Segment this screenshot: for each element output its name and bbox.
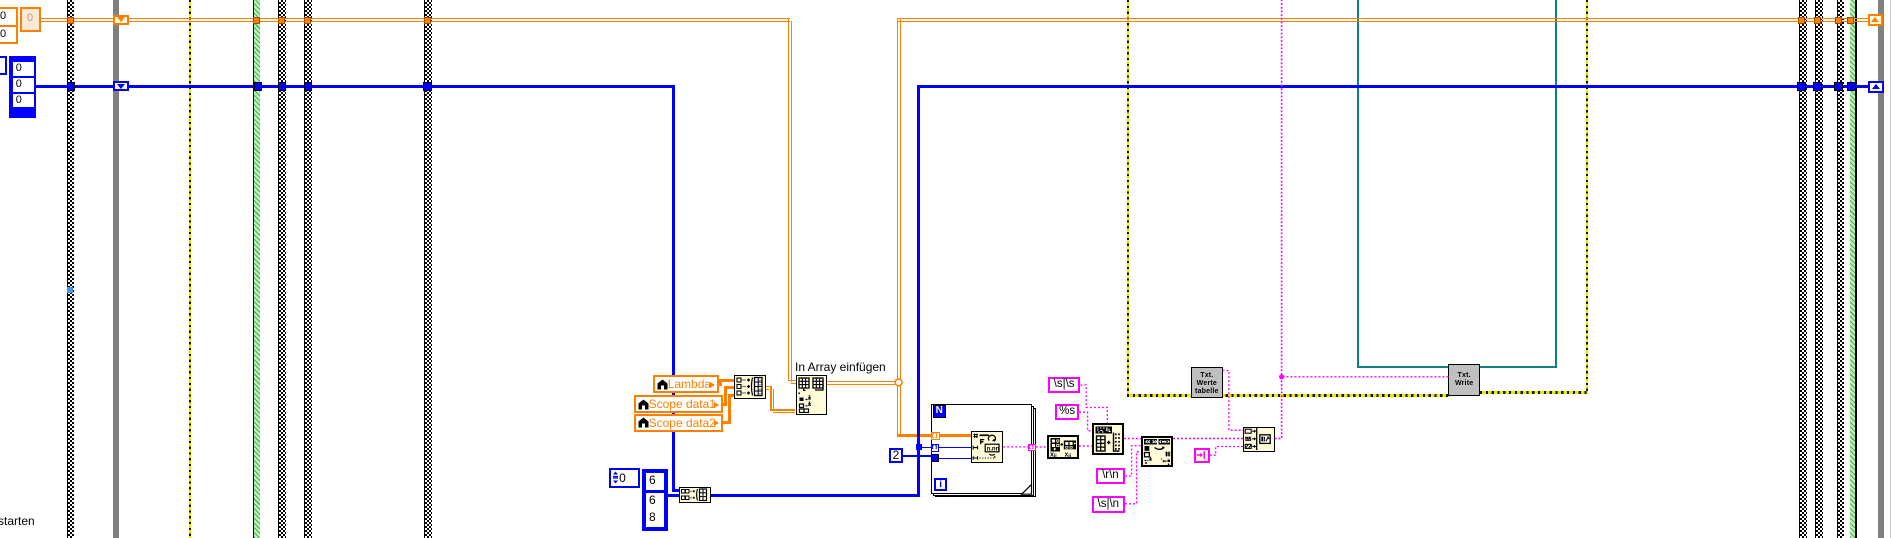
svg-text:n.nn: n.nn [987, 447, 1000, 453]
svg-text:xii: xii [1050, 451, 1057, 457]
svg-text:xji: xji [1065, 451, 1072, 457]
